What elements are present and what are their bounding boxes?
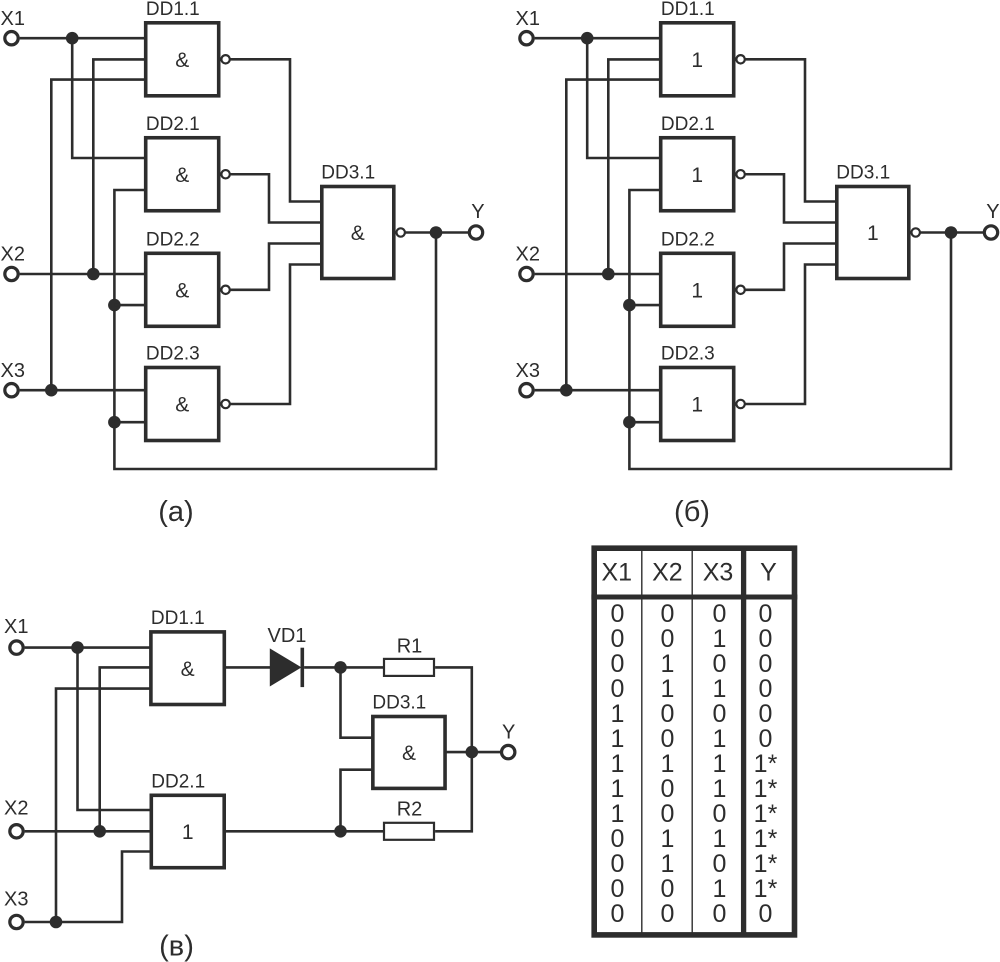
logic gate DD2.1 (circuit v) (151, 795, 224, 867)
truth table column line X1/X2 (641, 548, 643, 935)
svg-text:X3: X3 (4, 889, 28, 911)
svg-text:1: 1 (661, 750, 675, 778)
logic gate DD3.1 (circuit a) (322, 187, 394, 279)
junction feedback to DD2.3 pin 2 (circuit b) (623, 416, 636, 429)
wire DD2.1 output to DD3.1 pin 2 (circuit b) (745, 174, 836, 222)
svg-text:Y: Y (502, 722, 515, 744)
inversion bubble DD3.1 output (circuit b) (912, 228, 920, 236)
wire VD1 cathode to R1 (circuit v) (304, 666, 383, 669)
inversion bubble DD1.1 output (circuit a) (221, 55, 229, 63)
wire X1 down to DD2.1 pin 1 (circuit v) (78, 648, 150, 810)
logic gate DD1.1 (circuit b) (661, 23, 734, 96)
svg-text:(в): (в) (159, 931, 194, 962)
svg-text:0: 0 (661, 600, 675, 628)
svg-text:1: 1 (661, 825, 675, 853)
wire stub feedback to DD2.3 pin 2 (circuit a) (114, 421, 144, 424)
input terminal X2 (circuit b) (520, 267, 533, 280)
svg-text:1: 1 (691, 164, 703, 187)
svg-text:Y: Y (471, 201, 484, 223)
svg-text:0: 0 (713, 900, 727, 928)
svg-text:0: 0 (713, 600, 727, 628)
svg-text:0: 0 (661, 900, 675, 928)
wire X1 to DD1.1 pin 1 (circuit a) (20, 37, 145, 40)
svg-text:&: & (351, 222, 365, 245)
wire X2 to DD2.1 pin 2 (circuit v) (25, 830, 150, 833)
svg-text:DD2.1: DD2.1 (151, 771, 205, 792)
input terminal X1 (circuit a) (5, 32, 18, 45)
wire DD2.2 output to DD3.1 pin 3 (circuit b) (745, 244, 836, 290)
wire X3 up to DD1.1 pin 3 (circuit b) (566, 80, 659, 391)
svg-text:X2: X2 (652, 559, 683, 587)
svg-text:0: 0 (713, 650, 727, 678)
logic gate DD2.3 (circuit b) (661, 368, 734, 441)
svg-text:0: 0 (713, 800, 727, 828)
wire DD1.1 output to DD3.1 pin 1 (circuit a) (230, 59, 321, 201)
svg-text:&: & (175, 279, 189, 302)
svg-text:DD2.1: DD2.1 (146, 114, 200, 135)
svg-text:0: 0 (759, 675, 773, 703)
wire X2 to DD2.2 pin 1 (circuit a) (20, 273, 145, 276)
junction feedback to DD2.3 pin 2 (circuit a) (108, 416, 121, 429)
svg-text:R1: R1 (397, 636, 423, 658)
svg-text:DD1.1: DD1.1 (146, 0, 200, 20)
wire X2 up to DD1.1 pin 2 (circuit b) (608, 59, 659, 274)
junction feedback to DD2.2 pin 2 (circuit a) (108, 299, 121, 312)
svg-text:X2: X2 (4, 798, 28, 820)
svg-text:1*: 1* (754, 825, 778, 853)
wire X2 to DD2.2 pin 1 (circuit b) (535, 273, 660, 276)
inversion bubble DD2.2 output (circuit b) (736, 286, 744, 294)
svg-text:0: 0 (713, 700, 727, 728)
svg-text:1: 1 (611, 700, 625, 728)
feedback wire from Y to DD2.1 pin 2 (circuit b) (629, 190, 951, 469)
wire X2 up to DD1.1 pin 2 (circuit v) (100, 667, 150, 831)
svg-text:X3: X3 (516, 360, 540, 382)
logic gate DD1.1 (circuit v) (151, 632, 224, 705)
svg-text:DD3.1: DD3.1 (372, 693, 426, 714)
inversion bubble DD2.3 output (circuit a) (221, 400, 229, 408)
inversion bubble DD1.1 output (circuit b) (736, 55, 744, 63)
svg-text:0: 0 (713, 850, 727, 878)
wire X3 up to DD1.1 pin 3 (circuit v) (56, 689, 150, 922)
svg-text:X2: X2 (516, 244, 540, 266)
junction after VD1 (circuit v) (334, 661, 347, 674)
wire X3 to DD2.1 pin 3 (circuit v) (25, 852, 150, 923)
svg-text:&: & (181, 658, 195, 681)
wire stub feedback to DD2.2 pin 2 (circuit b) (629, 304, 659, 307)
truth table column line X2/X3 (691, 548, 693, 935)
input terminal X2 (circuit v) (10, 825, 23, 838)
wire X1 to DD1.1 pin 1 (circuit v) (25, 646, 150, 649)
svg-text:0: 0 (759, 600, 773, 628)
wire X3 to DD2.3 pin 1 (circuit b) (535, 389, 660, 392)
wire stub feedback to DD2.2 pin 2 (circuit a) (114, 304, 144, 307)
inversion bubble DD2.1 output (circuit b) (736, 170, 744, 178)
junction DD3.1 pin 2 on DD2.1 output line (circuit v) (334, 825, 347, 838)
junction on X1 wire (circuit a) (66, 32, 79, 45)
svg-text:DD2.1: DD2.1 (661, 114, 715, 135)
resistor R2 (circuit v) (384, 823, 434, 840)
svg-text:(а): (а) (158, 496, 193, 528)
svg-text:1: 1 (713, 875, 727, 903)
svg-text:X3: X3 (1, 360, 25, 382)
logic gate DD2.2 (circuit b) (661, 253, 734, 326)
wire DD2.3 output to DD3.1 pin 4 (circuit a) (230, 265, 321, 405)
input terminal X3 (circuit b) (520, 384, 533, 397)
svg-text:X1: X1 (4, 616, 28, 638)
wire DD3.1 output to terminal Y (circuit v) (447, 751, 502, 754)
junction on X3 wire (circuit b) (560, 384, 573, 397)
svg-text:R2: R2 (397, 799, 423, 821)
svg-text:DD3.1: DD3.1 (836, 163, 890, 184)
input terminal X3 (circuit v) (10, 915, 23, 928)
input terminal X3 (circuit a) (5, 384, 18, 397)
inversion bubble DD2.2 output (circuit a) (221, 286, 229, 294)
svg-text:DD2.2: DD2.2 (661, 229, 715, 250)
svg-text:&: & (175, 164, 189, 187)
svg-text:0: 0 (661, 875, 675, 903)
wire X2 up to DD1.1 pin 2 (circuit a) (93, 59, 144, 274)
svg-text:1*: 1* (754, 850, 778, 878)
svg-text:1: 1 (713, 725, 727, 753)
svg-text:1: 1 (661, 850, 675, 878)
svg-text:(б): (б) (674, 496, 710, 528)
junction feedback to DD2.2 pin 2 (circuit b) (623, 299, 636, 312)
svg-text:1: 1 (713, 675, 727, 703)
resistor R1 (circuit v) (384, 659, 434, 676)
diode VD1 (circuit v) (270, 649, 300, 685)
junction on output Y wire (circuit v) (466, 746, 479, 759)
svg-text:1: 1 (611, 750, 625, 778)
svg-text:1: 1 (713, 825, 727, 853)
svg-text:1: 1 (691, 394, 703, 417)
input terminal X1 (circuit b) (520, 32, 533, 45)
svg-text:1: 1 (713, 750, 727, 778)
junction on X3 wire (circuit a) (45, 384, 58, 397)
svg-text:0: 0 (661, 700, 675, 728)
svg-text:VD1: VD1 (268, 625, 307, 647)
svg-text:0: 0 (759, 625, 773, 653)
wire X3 up to DD1.1 pin 3 (circuit a) (51, 80, 144, 391)
junction on X3 wire (circuit v) (50, 916, 63, 929)
svg-text:&: & (402, 742, 416, 765)
logic gate DD2.1 (circuit b) (661, 138, 734, 211)
wire DD1.1 output to DD3.1 pin 1 (circuit b) (745, 59, 836, 201)
inversion bubble DD3.1 output (circuit a) (397, 228, 405, 236)
wire VD1 node down to DD3.1 pin 1 (circuit v) (341, 667, 373, 737)
svg-text:Y: Y (760, 559, 777, 587)
svg-text:1: 1 (691, 279, 703, 302)
svg-text:0: 0 (661, 800, 675, 828)
svg-text:0: 0 (611, 675, 625, 703)
wire X3 to DD2.3 pin 1 (circuit a) (20, 389, 145, 392)
wire R1 to Y node (circuit v) (435, 667, 472, 752)
svg-text:1: 1 (611, 800, 625, 828)
feedback wire from Y to DD2.1 pin 2 (circuit a) (114, 190, 436, 469)
logic gate DD3.1 (circuit v) (373, 717, 445, 789)
wire X1 down to DD2.1 pin 1 (circuit a) (72, 38, 144, 158)
svg-text:0: 0 (759, 650, 773, 678)
output terminal Y (circuit b) (984, 226, 997, 239)
svg-text:DD2.2: DD2.2 (146, 229, 200, 250)
svg-text:X1: X1 (1, 8, 25, 30)
logic gate DD3.1 (circuit b) (837, 187, 909, 279)
svg-text:0: 0 (759, 725, 773, 753)
svg-text:0: 0 (661, 775, 675, 803)
svg-text:1: 1 (867, 222, 879, 245)
wire DD3.1 output to terminal Y (circuit a) (405, 231, 469, 234)
svg-text:X3: X3 (703, 559, 734, 587)
wire DD1.1 output to diode VD1 (circuit v) (226, 666, 270, 669)
svg-text:1: 1 (661, 650, 675, 678)
wire R2 to Y node (circuit v) (435, 752, 472, 831)
svg-text:0: 0 (759, 900, 773, 928)
junction on X1 wire (circuit v) (71, 641, 84, 654)
junction on X2 wire (circuit v) (93, 825, 106, 838)
logic gate DD2.2 (circuit a) (146, 253, 219, 326)
svg-text:0: 0 (661, 625, 675, 653)
wire DD3.1 pin 2 down to DD2.1 output line (circuit v) (341, 770, 373, 832)
svg-text:1: 1 (182, 821, 194, 844)
wire DD2.1 output to DD3.1 pin 2 (circuit a) (230, 174, 321, 222)
wire DD2.2 output to DD3.1 pin 3 (circuit a) (230, 244, 321, 290)
logic gate DD2.3 (circuit a) (146, 368, 219, 441)
svg-text:DD1.1: DD1.1 (661, 0, 715, 20)
svg-text:&: & (175, 49, 189, 72)
svg-text:1*: 1* (754, 875, 778, 903)
svg-text:0: 0 (611, 600, 625, 628)
svg-text:1: 1 (661, 675, 675, 703)
wire DD3.1 output to terminal Y (circuit b) (920, 231, 984, 234)
truth table header separator line (591, 595, 797, 600)
svg-text:1*: 1* (754, 800, 778, 828)
output terminal Y (circuit a) (469, 226, 482, 239)
junction on output Y wire (circuit a) (430, 226, 443, 239)
inversion bubble DD2.3 output (circuit b) (736, 400, 744, 408)
svg-text:0: 0 (611, 650, 625, 678)
svg-text:1*: 1* (754, 750, 778, 778)
truth table outer border (594, 548, 794, 935)
output terminal Y (circuit v) (502, 745, 515, 758)
wire stub feedback to DD2.3 pin 2 (circuit b) (629, 421, 659, 424)
svg-text:1: 1 (611, 725, 625, 753)
svg-text:X1: X1 (602, 559, 633, 587)
inversion bubble DD2.1 output (circuit a) (221, 170, 229, 178)
junction on X2 wire (circuit b) (602, 268, 615, 281)
svg-text:0: 0 (611, 825, 625, 853)
svg-text:DD1.1: DD1.1 (151, 608, 205, 629)
svg-text:0: 0 (611, 850, 625, 878)
svg-text:1: 1 (713, 775, 727, 803)
logic gate DD1.1 (circuit a) (146, 23, 219, 96)
svg-text:&: & (175, 394, 189, 417)
junction on output Y wire (circuit b) (945, 226, 958, 239)
svg-text:1: 1 (713, 625, 727, 653)
truth table column line X3/Y (741, 548, 746, 935)
svg-text:0: 0 (611, 625, 625, 653)
svg-text:1: 1 (691, 49, 703, 72)
svg-text:DD3.1: DD3.1 (321, 163, 375, 184)
svg-text:DD2.3: DD2.3 (146, 344, 200, 365)
svg-text:0: 0 (611, 900, 625, 928)
wire DD2.1 output to R2 (circuit v) (226, 830, 383, 833)
svg-text:1*: 1* (754, 775, 778, 803)
input terminal X1 (circuit v) (10, 641, 23, 654)
wire X1 to DD1.1 pin 1 (circuit b) (535, 37, 660, 40)
input terminal X2 (circuit a) (5, 267, 18, 280)
svg-text:DD2.3: DD2.3 (661, 344, 715, 365)
junction on X2 wire (circuit a) (87, 268, 100, 281)
svg-text:0: 0 (611, 875, 625, 903)
svg-text:X2: X2 (1, 244, 25, 266)
svg-text:Y: Y (986, 201, 999, 223)
svg-text:X1: X1 (516, 8, 540, 30)
junction on X1 wire (circuit b) (581, 32, 594, 45)
logic gate DD2.1 (circuit a) (146, 138, 219, 211)
wire DD2.3 output to DD3.1 pin 4 (circuit b) (745, 265, 836, 405)
svg-text:0: 0 (661, 725, 675, 753)
svg-text:1: 1 (611, 775, 625, 803)
svg-text:0: 0 (759, 700, 773, 728)
wire X1 down to DD2.1 pin 1 (circuit b) (587, 38, 659, 158)
